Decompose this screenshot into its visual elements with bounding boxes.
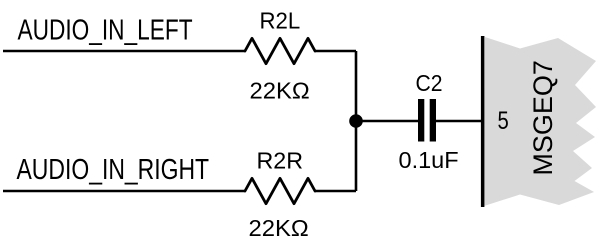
- svg-text:AUDIO_IN_RIGHT: AUDIO_IN_RIGHT: [17, 152, 210, 185]
- resistor R2R: [245, 178, 315, 203]
- svg-text:5: 5: [498, 107, 509, 134]
- svg-text:AUDIO_IN_LEFT: AUDIO_IN_LEFT: [18, 13, 193, 46]
- svg-text:22KΩ: 22KΩ: [249, 216, 309, 242]
- wire R2L to node: [315, 50, 356, 53]
- wire vertical joining both resistors: [355, 51, 358, 191]
- capacitor C2 right plate: [430, 99, 436, 142]
- wire node to C2: [356, 120, 418, 123]
- wire audio left input: [3, 50, 245, 53]
- resistor R2L: [245, 38, 315, 63]
- svg-text:R2R: R2R: [257, 147, 304, 173]
- svg-text:22KΩ: 22KΩ: [250, 78, 310, 104]
- capacitor C2 left plate: [418, 99, 424, 142]
- wire audio right input: [3, 190, 245, 193]
- chip left edge pin bar: [481, 36, 485, 207]
- svg-text:R2L: R2L: [260, 7, 301, 34]
- wire R2R to node: [315, 190, 356, 193]
- wire C2 to pin 5: [436, 120, 481, 123]
- junction node dot: [349, 114, 363, 128]
- svg-text:C2: C2: [416, 70, 443, 96]
- op-amp/chip U1 MSGEQ7 torn body: [484, 37, 596, 206]
- svg-text:0.1uF: 0.1uF: [399, 147, 459, 173]
- svg-text:MSGEQ7: MSGEQ7: [528, 60, 558, 176]
